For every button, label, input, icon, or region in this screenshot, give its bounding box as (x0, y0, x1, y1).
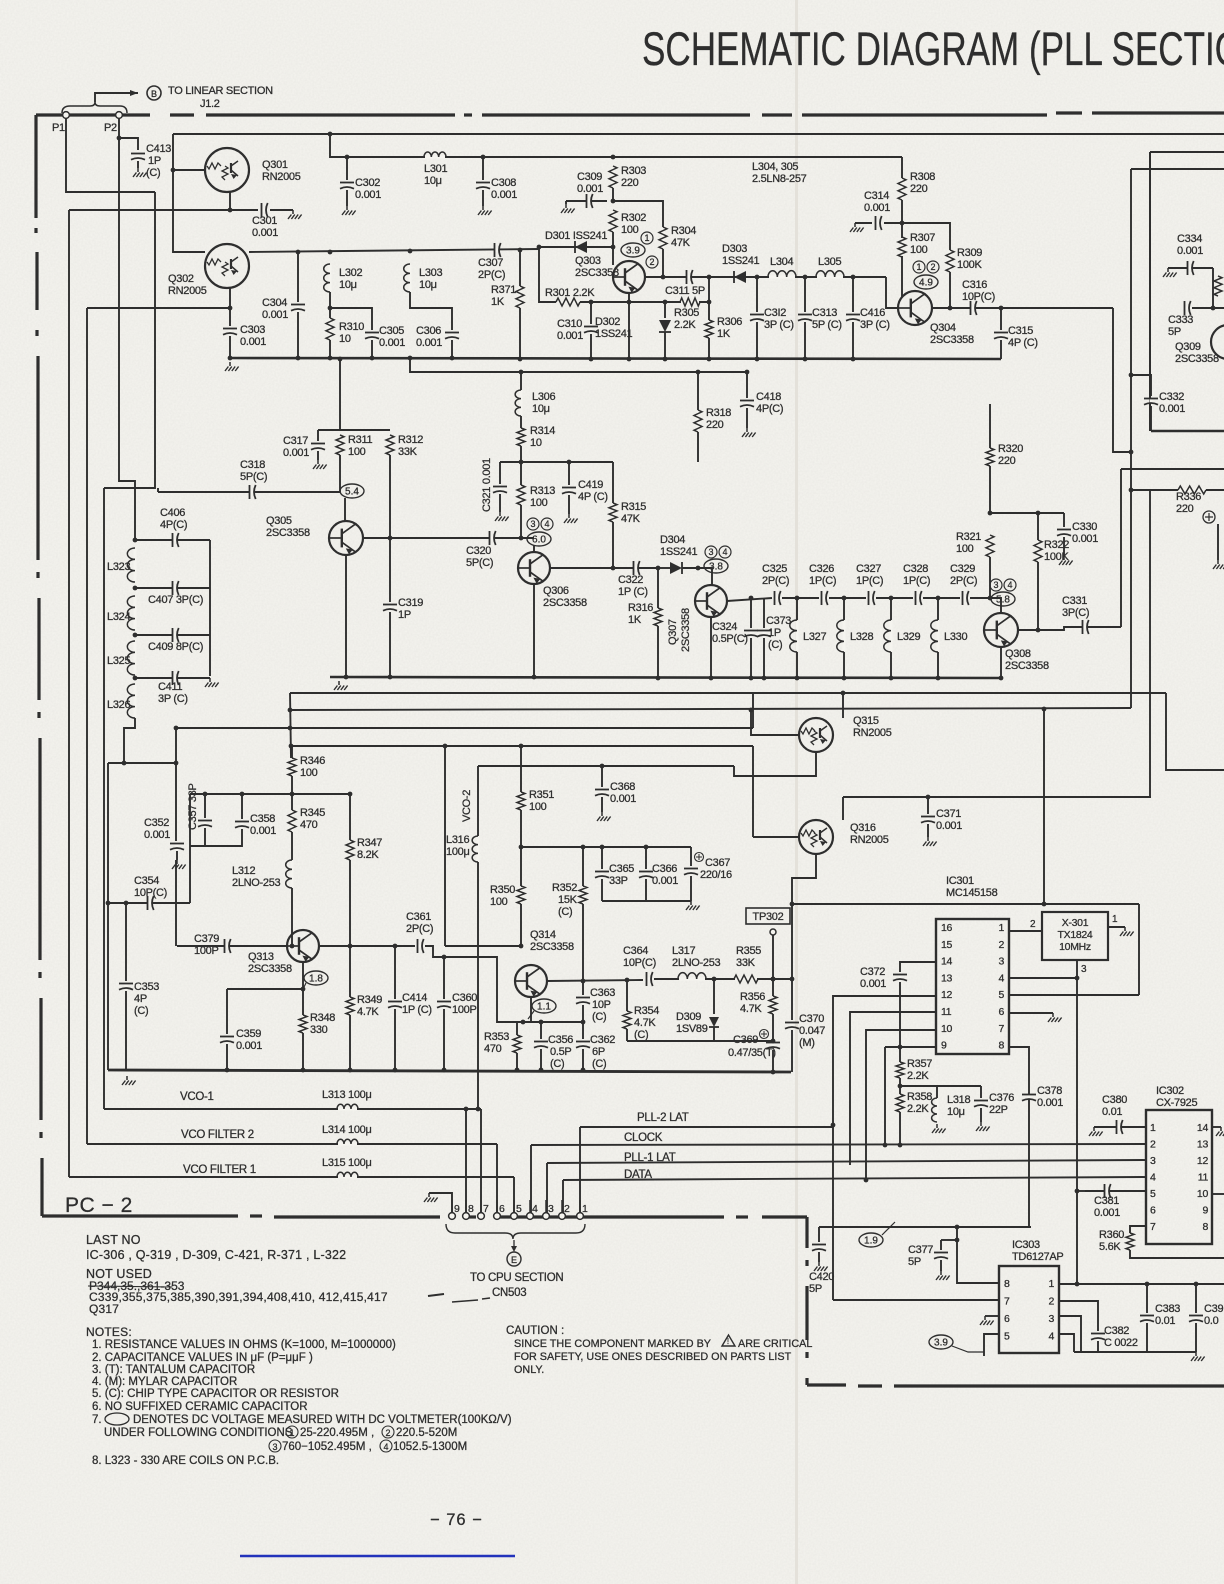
svg-text:15K: 15K (558, 894, 578, 906)
svg-text:R310: R310 (339, 321, 364, 333)
label L301 10&#181; (424, 163, 447, 187)
label R360 5.6K (1099, 1229, 1124, 1253)
inductor L314 (337, 1139, 358, 1144)
resistor R306 (705, 320, 713, 338)
svg-text:R358: R358 (907, 1091, 932, 1103)
svg-text:R322: R322 (1044, 539, 1069, 551)
svg-text:7.: 7. (92, 1414, 102, 1426)
junction bias node (519, 944, 524, 949)
label C370 0.047 (M) (799, 1013, 825, 1049)
wire C420 col (818, 1227, 820, 1242)
svg-text:1P(C): 1P(C) (903, 575, 930, 587)
wire C353 col (125, 903, 127, 981)
label Q303 2SC3358 (575, 255, 619, 279)
voltage point 1 at Q304 (913, 261, 925, 273)
svg-text:R318: R318 (706, 407, 731, 419)
wire L306-R314 (520, 416, 522, 428)
wire R311 lower (339, 455, 341, 492)
svg-text:5.4: 5.4 (345, 487, 359, 498)
wire C358 lower (205, 829, 242, 846)
wire PLL-2 LAT line (580, 1126, 833, 1128)
capacitor C330 (1057, 530, 1071, 536)
svg-text:22P: 22P (989, 1104, 1008, 1116)
svg-text:10μ: 10μ (419, 279, 437, 291)
label R320 220 (998, 443, 1023, 467)
wire C365 lower (601, 879, 603, 901)
svg-text:4. (M): MYLAR CAPACITOR: 4. (M): MYLAR CAPACITOR (92, 1376, 237, 1388)
wire IC303 pin5 link (984, 1334, 999, 1356)
label C301 0.001 (252, 215, 278, 239)
wire pin9 ground stub (429, 1193, 452, 1213)
text not-used q (89, 1302, 119, 1316)
junction C418 top (745, 370, 750, 375)
svg-text:0.5P(C): 0.5P(C) (712, 633, 748, 645)
svg-text:R305: R305 (674, 307, 699, 319)
wire Q313 collector (319, 945, 415, 947)
svg-text:10μ: 10μ (424, 175, 442, 187)
wire rail x155 down (104, 192, 155, 488)
label C326 1P(C) (809, 563, 836, 587)
capacitor C409 (173, 628, 179, 642)
svg-text:E: E (511, 1255, 517, 1265)
junction C362 bus (581, 1068, 586, 1073)
capacitor C301 (262, 203, 268, 217)
svg-text:2SC3358: 2SC3358 (266, 527, 310, 539)
svg-text:7: 7 (998, 1023, 1004, 1035)
junction C306 bus (450, 356, 455, 361)
wire C314 node to R309 (902, 223, 950, 250)
label C363 10P (C) (590, 987, 615, 1023)
wire bracket to B terminal (95, 93, 138, 102)
label C332 0.001 (1159, 391, 1185, 415)
svg-text:4.9: 4.9 (919, 278, 933, 289)
svg-text:2SC3358: 2SC3358 (930, 334, 974, 346)
svg-text:2LNO-253: 2LNO-253 (232, 877, 281, 889)
wire C371 gnd (927, 824, 929, 837)
label C368 0.001 (610, 781, 636, 805)
label C333 5P (1168, 314, 1193, 338)
transistor Q313 2SC3358 (287, 930, 319, 962)
wire IC301 pin12 riser (833, 996, 937, 1300)
wire Q315 emitter jog (734, 753, 816, 776)
wire R318 column (697, 372, 699, 410)
capacitor C360 (437, 1002, 451, 1008)
arrowhead to B (130, 90, 138, 96)
junction Q306 emitter bus (532, 675, 537, 680)
ground ladder right (205, 678, 219, 687)
svg-text:33P: 33P (609, 875, 628, 887)
svg-text:10: 10 (530, 437, 542, 449)
svg-text:0.001: 0.001 (1072, 533, 1098, 545)
capacitor C411 (173, 671, 179, 685)
label R371 1K (491, 284, 516, 308)
svg-text:8. L323 - 330 ARE COILS ON: 8. L323 - 330 ARE COILS ON P.C.B. (92, 1455, 279, 1467)
resistor R322 (1034, 540, 1042, 562)
svg-text:3.8: 3.8 (709, 562, 723, 573)
capacitor C352 (170, 844, 184, 850)
svg-text:1P: 1P (768, 627, 781, 639)
capacitor C306 (445, 333, 459, 339)
junction C310 bus (589, 357, 594, 362)
connector bracket over P1 P2 (62, 102, 127, 113)
junction R358 clock (898, 1143, 903, 1148)
svg-text:(C): (C) (634, 1029, 648, 1041)
svg-text:1K: 1K (628, 614, 642, 626)
svg-text:R316: R316 (628, 602, 653, 614)
wire C366 branch (645, 847, 647, 869)
junction C419 tap (567, 460, 572, 465)
svg-text:1: 1 (1048, 1278, 1054, 1290)
junction Q303 emitter bus (627, 357, 632, 362)
label L330 (944, 631, 967, 643)
label C369 0.47/35(T) (728, 1030, 776, 1060)
capacitor C333 (1185, 301, 1191, 315)
inductor L304 (768, 271, 796, 277)
wire cap chain 3 (829, 597, 866, 599)
label C360 100P (452, 992, 477, 1016)
wire collector row to D303 (727, 276, 886, 278)
wire C313 branch (804, 277, 806, 312)
wire C302 branch (346, 157, 348, 180)
svg-text:100: 100 (621, 224, 639, 236)
wire L329 lower (890, 652, 892, 678)
wire IC301 pin10 riser (866, 1030, 937, 1182)
resistor R371 (516, 286, 524, 308)
capacitor C419 (562, 488, 576, 494)
wire y728 riser (752, 693, 754, 728)
svg-text:VCO-2: VCO-2 (461, 790, 473, 822)
svg-text:D301 ISS241: D301 ISS241 (545, 230, 607, 242)
svg-text:C407 3P(C): C407 3P(C) (148, 594, 203, 606)
svg-text:10P(C): 10P(C) (134, 887, 167, 899)
wire L327 upper (796, 598, 798, 620)
label R322 100K (1044, 539, 1069, 563)
junction D301 node (611, 245, 616, 250)
note 3 (92, 1364, 255, 1376)
svg-text:C416: C416 (860, 307, 885, 319)
svg-text:Q308: Q308 (1005, 648, 1031, 660)
svg-text:4: 4 (544, 519, 549, 529)
svg-text:C364: C364 (623, 945, 648, 957)
junction C381 x1077 (1075, 1189, 1080, 1194)
junction ladder top (133, 538, 138, 543)
connector pin circle 3 (543, 1213, 550, 1220)
label C307 2P(C) (478, 257, 505, 281)
wire D309 branch (713, 979, 715, 1014)
svg-text:L304: L304 (770, 256, 793, 268)
wire C332 to box bottom (1150, 406, 1152, 431)
wire D304 to Q307 (658, 567, 670, 569)
svg-text:4: 4 (1048, 1331, 1054, 1343)
transistor Q305 2SC3358 (329, 521, 363, 555)
wire C367 branch (690, 847, 692, 866)
capacitor C390 (1189, 1316, 1203, 1322)
wire rail y746 (290, 745, 753, 747)
resistor R357 (896, 1062, 904, 1078)
svg-text:1052.5-1300M: 1052.5-1300M (393, 1441, 467, 1453)
svg-text:Q307: Q307 (667, 619, 679, 645)
wire Q301 emitter (229, 192, 231, 210)
label TO CPU SECTION (470, 1272, 563, 1284)
wire C356 lower (540, 1049, 542, 1070)
capacitor C320 (490, 531, 496, 545)
capacitor C366 (639, 872, 653, 878)
svg-text:3: 3 (993, 580, 998, 590)
wire C413 branch (119, 138, 138, 150)
label PLL-2 LAT (637, 1112, 689, 1124)
wire R353 upper (516, 1022, 518, 1035)
ground at C309 (561, 204, 575, 213)
wire R322 lower (1037, 562, 1039, 630)
resistor R337 (1214, 276, 1222, 296)
wire Q308 emitter (1000, 647, 1002, 678)
svg-text:(C): (C) (558, 906, 572, 918)
svg-text:0.001: 0.001 (1159, 403, 1185, 415)
wire R351 col (520, 746, 522, 792)
transistor Q308 2SC3358 (984, 613, 1018, 647)
svg-text:B: B (151, 89, 157, 99)
wire C366 lower (645, 879, 647, 901)
junction node y462 (519, 460, 524, 465)
wire Q301 base (173, 169, 205, 171)
resistor R315 (609, 503, 617, 522)
wire L306 column (520, 372, 522, 390)
svg-text:3P(C): 3P(C) (1062, 607, 1089, 619)
wire IC301 pin5 row (1010, 994, 1139, 996)
svg-text:4: 4 (998, 972, 1004, 984)
wire R348 lower (302, 1033, 304, 1070)
junction D304 R317 (696, 566, 701, 571)
blue line bottom (240, 1555, 515, 1558)
junction R356 top (771, 977, 776, 982)
capacitor C364 (647, 972, 653, 986)
svg-text:C320: C320 (466, 545, 491, 557)
junction L330 top (936, 596, 941, 601)
junction C368 top (600, 764, 605, 769)
wire C304 to bus (297, 312, 299, 358)
label D309 1SV89 (676, 1011, 708, 1035)
wire L330 upper (937, 598, 939, 620)
label R351 100 (529, 789, 554, 813)
wire C372 down (899, 982, 901, 1062)
svg-text:4P(C): 4P(C) (160, 519, 187, 531)
junction R309 output (948, 306, 953, 311)
svg-text:R311: R311 (348, 434, 372, 446)
capacitor C372 (893, 975, 907, 981)
wire L318 col (936, 1086, 938, 1098)
wire R315 column (612, 462, 614, 503)
inductor L316 (472, 836, 478, 862)
label C376 22P (989, 1092, 1014, 1116)
wire C324 branch (750, 598, 752, 628)
label R304 47K (671, 225, 696, 249)
note 6 (92, 1401, 308, 1413)
junction ladder n4 (133, 676, 138, 681)
svg-text:0.001: 0.001 (864, 202, 890, 214)
capacitor C414 (388, 1002, 402, 1008)
label C354 10P(C) (134, 875, 167, 899)
wire R318 lower (697, 432, 699, 462)
connector pin circle 9 (449, 1213, 456, 1220)
junction R303 C309 R302 (611, 199, 616, 204)
label Q302 RN2005 (168, 273, 207, 297)
resistor R352 (579, 886, 587, 904)
wire C377 row (941, 1239, 957, 1241)
label R321 100 (956, 531, 981, 555)
label C382 C 0022 (1104, 1325, 1138, 1349)
svg-text:L324: L324 (107, 611, 130, 623)
label C362 6P (C) (590, 1034, 615, 1070)
svg-text:C303: C303 (240, 324, 265, 336)
label Q309 2SC3358 (1175, 341, 1219, 365)
capacitor C382 (1091, 1334, 1105, 1340)
capacitor C328 (916, 591, 922, 605)
junction C416 bus (851, 357, 856, 362)
capacitor C363 (576, 998, 590, 1004)
resistor R316 (654, 608, 662, 626)
svg-text:2. CAPACITANCE VALUES IN μF (: 2. CAPACITANCE VALUES IN μF (P=μμF ) (92, 1352, 313, 1364)
svg-text:NOTES:: NOTES: (86, 1325, 132, 1339)
svg-text:0.001: 0.001 (416, 337, 442, 349)
label DATA (624, 1169, 652, 1181)
resistor R305 (680, 298, 700, 306)
wire VCO-1 line (104, 1108, 481, 1110)
Q309 section box (1150, 152, 1224, 431)
label R316 1K (628, 602, 653, 626)
svg-text:5P: 5P (1168, 326, 1181, 338)
junction R321 base (988, 596, 993, 601)
label LAST NO (86, 1233, 141, 1247)
voltage 4.9 at Q304 (914, 275, 938, 289)
wire R357 lower (899, 1078, 901, 1094)
junction L328 bus (842, 676, 847, 681)
wire rail y847 (521, 846, 691, 848)
capacitor C314 (876, 216, 882, 230)
ground at C352 (172, 860, 186, 869)
svg-text:220: 220 (621, 177, 639, 189)
svg-text:4: 4 (722, 547, 727, 557)
svg-text:SINCE THE COMPONENT MARKED BY: SINCE THE COMPONENT MARKED BY (514, 1338, 711, 1350)
svg-text:3: 3 (1081, 964, 1087, 975)
wire C306 to bus (451, 340, 453, 358)
wire R320 column (989, 404, 991, 448)
inductor L303 (404, 264, 410, 292)
svg-text:R309: R309 (957, 247, 982, 259)
svg-text:2P(C): 2P(C) (406, 923, 433, 935)
svg-text:16: 16 (941, 922, 953, 934)
wire Q308 collector out (1018, 627, 1121, 630)
svg-text:5.6K: 5.6K (1099, 1241, 1121, 1253)
wire R349 lower (349, 1015, 351, 1070)
label C328 1P(C) (903, 563, 930, 587)
svg-text:6. NO SUFFIXED CERAMIC CAPAC: 6. NO SUFFIXED CERAMIC CAPACITOR (92, 1401, 308, 1413)
svg-text:C419: C419 (578, 479, 603, 491)
svg-text:FOR SAFETY, USE ONES DESCRIBED: FOR SAFETY, USE ONES DESCRIBED ON PARTS … (514, 1351, 792, 1363)
wire L328 upper (843, 598, 845, 620)
svg-text:1SV89: 1SV89 (676, 1023, 708, 1035)
pointer line 3.9 (952, 1346, 984, 1352)
wire vcof1 to pin5 (513, 1177, 515, 1213)
svg-text:13: 13 (1197, 1139, 1209, 1151)
svg-text:R304: R304 (671, 225, 696, 237)
svg-text:33K: 33K (398, 446, 418, 458)
svg-text:2: 2 (1030, 919, 1036, 930)
PC-2 board border bottom-right (807, 1385, 1224, 1386)
svg-text:C367: C367 (705, 857, 730, 869)
svg-text:L325: L325 (107, 655, 130, 667)
svg-text:7: 7 (483, 1203, 489, 1215)
junction C377 row (955, 1238, 960, 1243)
svg-text:100: 100 (490, 896, 508, 908)
wire y763 link (108, 762, 176, 764)
svg-text:C310: C310 (557, 318, 582, 330)
wire IC303 pin6 gnd (985, 1315, 999, 1317)
wire C414 lower (394, 1009, 396, 1070)
svg-text:10P(C): 10P(C) (962, 291, 995, 303)
svg-text:C420: C420 (809, 1271, 834, 1283)
svg-text:R314: R314 (530, 425, 555, 437)
svg-text:R347: R347 (357, 837, 382, 849)
svg-text:1: 1 (644, 233, 649, 243)
capacitor C376 (974, 1101, 988, 1107)
capacitor C378 (1022, 1095, 1036, 1101)
wire C363 lower (582, 1005, 584, 1022)
junctions rail x290 (288, 708, 294, 749)
svg-text:C362: C362 (590, 1034, 615, 1046)
label C411 3P(C) (158, 681, 188, 705)
capacitor C315 (994, 333, 1008, 339)
label R358 2.2K (907, 1091, 932, 1115)
junction x176 y728 (174, 726, 179, 731)
wire P1 feed (66, 118, 155, 192)
svg-text:2: 2 (1048, 1296, 1054, 1308)
wire C324 to bus (750, 638, 752, 678)
label R357 2.2K (907, 1058, 932, 1082)
svg-text:C360: C360 (452, 992, 477, 1004)
ground bus VCO (108, 1070, 791, 1072)
wire C313 to bus (804, 322, 806, 359)
svg-text:P1: P1 (52, 122, 65, 134)
junction L316 vco1 (476, 1107, 481, 1112)
wire IC303 pin3 row (1059, 1316, 1081, 1352)
capacitor C356 (534, 1042, 548, 1048)
junction C324 bus (749, 676, 754, 681)
svg-text:C371: C371 (936, 808, 961, 820)
wire ladder n2 (135, 587, 210, 589)
svg-text:2.5LN8-257: 2.5LN8-257 (752, 173, 807, 185)
wire C301 rail left (68, 210, 70, 1177)
label C327 1P(C) (856, 563, 883, 587)
wire C414 branch (394, 946, 396, 999)
svg-text:C359: C359 (236, 1028, 261, 1040)
svg-text:R352: R352 (552, 882, 577, 894)
wire R322 upper (1037, 513, 1039, 540)
capacitor C416 (846, 315, 860, 321)
svg-text:3.9: 3.9 (934, 1338, 948, 1349)
svg-text:C373: C373 (766, 615, 791, 627)
wire rail y710 (290, 708, 1131, 710)
svg-text:L318: L318 (947, 1094, 970, 1106)
wire D301 link (539, 246, 613, 248)
wire C302 gnd (346, 190, 348, 206)
label C414 1P (C) (402, 992, 432, 1016)
wire D302 branch (664, 302, 666, 318)
svg-text:Q304: Q304 (930, 322, 956, 334)
inductor L315 (337, 1172, 358, 1177)
wire emitter row (227, 988, 303, 990)
label C352 0.001 (144, 817, 170, 841)
svg-text:2: 2 (649, 257, 654, 267)
